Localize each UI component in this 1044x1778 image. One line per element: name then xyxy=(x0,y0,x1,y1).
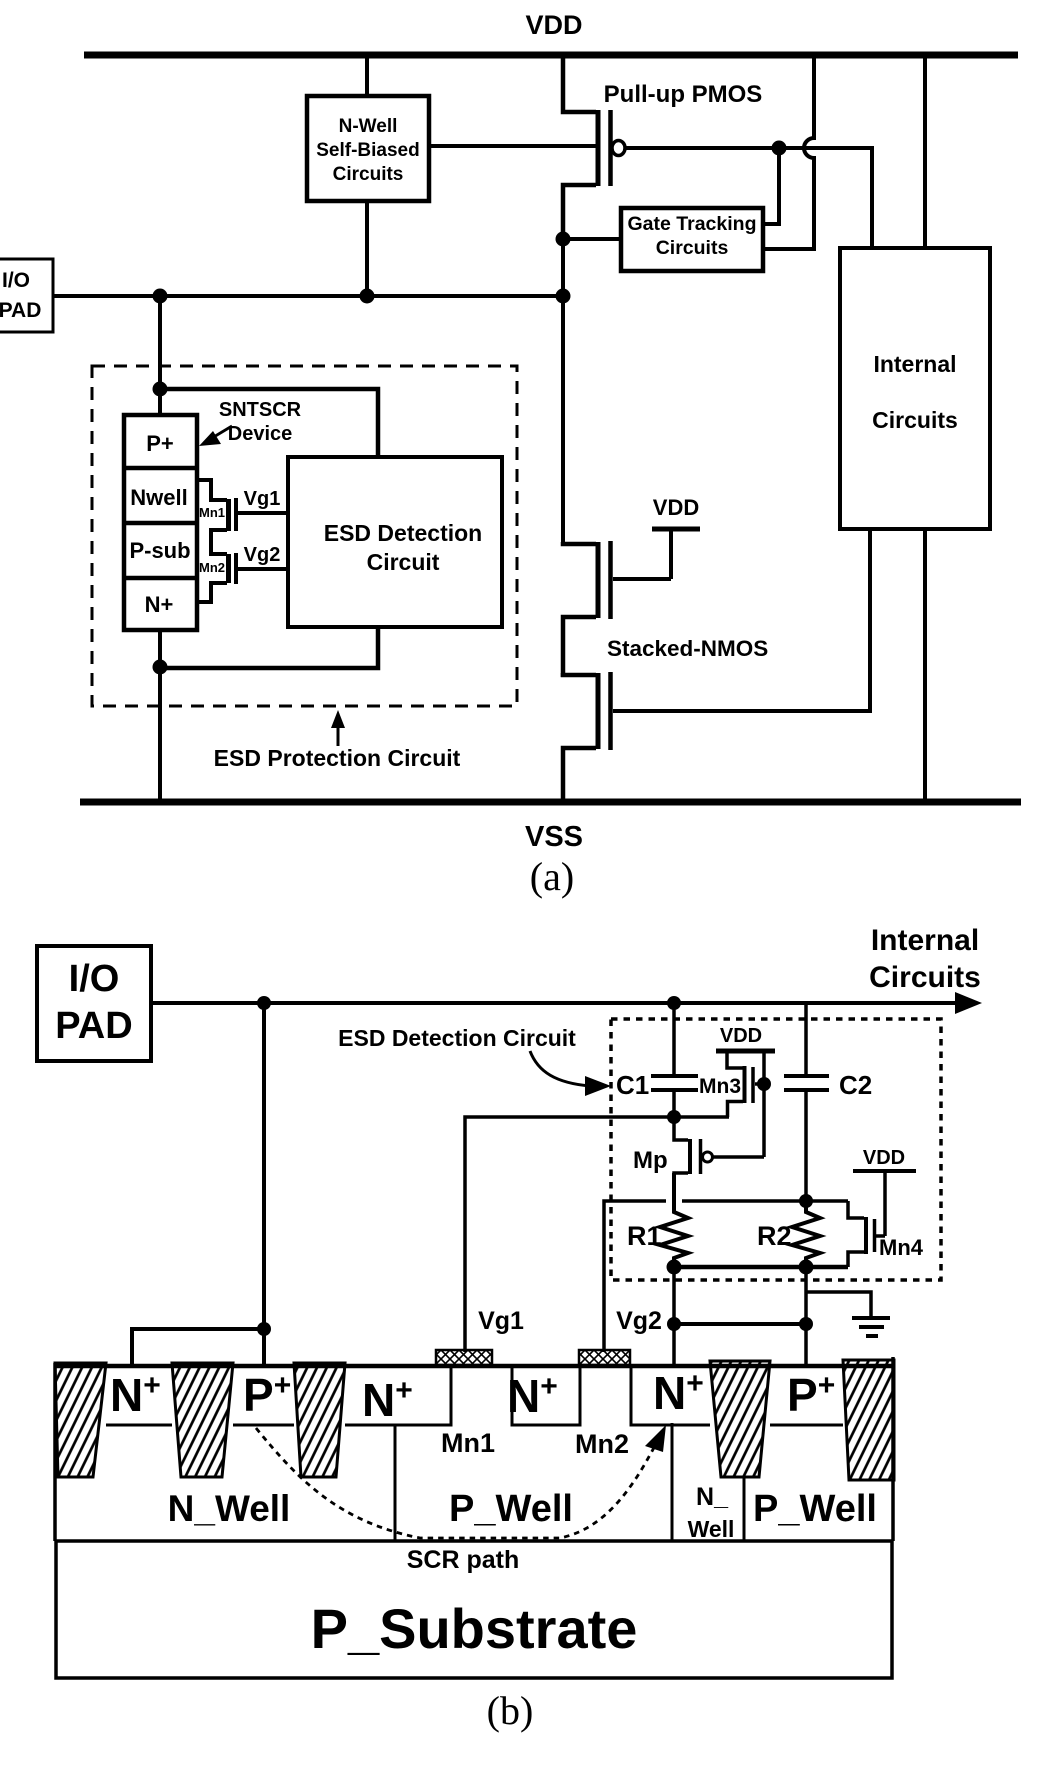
svg-text:VDD: VDD xyxy=(720,1025,762,1047)
SNTSCR device stack boxes P+/Nwell/P-sub/N+ xyxy=(124,415,197,630)
node Mn3 gate dot xyxy=(757,1077,771,1091)
wire Vg2 node horizontal (left of R1) xyxy=(604,1201,666,1352)
node pad line junction at x367 xyxy=(360,289,375,304)
field oxide trapezoid 1 xyxy=(55,1363,106,1477)
svg-text:P_Well: P_Well xyxy=(753,1488,877,1530)
node Vg2 net right dot xyxy=(799,1317,813,1331)
svg-text:Mn2: Mn2 xyxy=(575,1429,629,1459)
wire ESD detection bottom to SNTSCR cathode xyxy=(160,627,378,668)
diffusion N+ fourth outline xyxy=(631,1364,710,1425)
svg-text:VSS: VSS xyxy=(525,821,583,853)
wire pad to internal circuits xyxy=(151,1001,960,1005)
wire N-Well box to PMOS bulk xyxy=(429,144,598,148)
N-Well Self-Biased Circuits box xyxy=(307,96,429,201)
svg-text:C1: C1 xyxy=(616,1070,649,1100)
svg-text:ESD Detection: ESD Detection xyxy=(324,520,482,546)
node C2 bottom dot xyxy=(799,1194,813,1208)
Internal Circuits box (part a) xyxy=(840,248,990,529)
arrow to internal circuits xyxy=(955,992,982,1014)
wire VDD to gate-tracking with hop over gate net xyxy=(764,55,814,249)
net label VDD (top) xyxy=(525,10,582,40)
svg-text:N_: N_ xyxy=(696,1483,729,1511)
svg-text:PAD: PAD xyxy=(55,1005,132,1047)
label Internal Circuits (part b) xyxy=(869,924,981,994)
wire VDD down to Mp gate xyxy=(762,1051,766,1157)
svg-text:VDD: VDD xyxy=(653,495,699,520)
svg-text:Mn4: Mn4 xyxy=(879,1235,924,1260)
label SNTSCR Device xyxy=(219,399,302,445)
net label Vg2 (part a) xyxy=(244,544,281,566)
field oxide trapezoid 4 xyxy=(710,1361,770,1477)
wire Vg2 net horizontal (substrate) xyxy=(674,1322,806,1326)
label N+ diffusion 1 xyxy=(110,1369,161,1421)
svg-text:P_Well: P_Well xyxy=(449,1488,573,1530)
field oxide trapezoid 3 xyxy=(294,1363,345,1477)
arrow to ESD protection dashed box xyxy=(331,710,345,746)
ESD protection dashed box xyxy=(92,366,517,706)
diffusion bottom P+ first xyxy=(233,1424,294,1427)
Gate Tracking Circuits box xyxy=(621,208,763,271)
transistor Mn3 xyxy=(699,1051,765,1117)
svg-text:N_Well: N_Well xyxy=(168,1488,291,1529)
wire SNTSCR cathode to VSS xyxy=(158,630,162,802)
svg-text:P+: P+ xyxy=(146,431,174,456)
svg-text:VDD: VDD xyxy=(863,1147,905,1169)
wire N-Well box bottom to pad line xyxy=(365,201,369,296)
transistor stacked-NMOS upper xyxy=(563,541,611,677)
svg-text:Mn3: Mn3 xyxy=(699,1075,741,1098)
well boundary N_Well/P_Well rightmost xyxy=(743,1477,746,1541)
svg-text:Well: Well xyxy=(688,1516,735,1542)
wire C2 bottom lead xyxy=(804,1090,808,1201)
capacitor C2 xyxy=(784,1070,872,1100)
arrow ESD detection label to C1 xyxy=(530,1051,611,1096)
P_Substrate box xyxy=(56,1541,892,1678)
ground symbol xyxy=(852,1318,890,1336)
wire Vg1 horizontal and down to gate contact xyxy=(465,1117,729,1352)
ESD detection dashed box (part b) xyxy=(611,1019,941,1280)
wire lower NMOS gate lead xyxy=(613,529,870,711)
label N+ diffusion 3 xyxy=(507,1370,558,1422)
svg-text:Device: Device xyxy=(228,423,293,445)
node pad line junction at x563 xyxy=(556,289,571,304)
wire Vg1 gate lead xyxy=(238,511,288,515)
transistor pull-up PMOS xyxy=(563,53,625,242)
svg-text:ESD Detection Circuit: ESD Detection Circuit xyxy=(338,1025,576,1051)
resistor R1 xyxy=(627,1173,688,1267)
wire pull-up drain to stacked NMOS xyxy=(561,236,565,544)
net label Vg2 (part b) xyxy=(616,1307,662,1335)
node drain-gate-tracking dot xyxy=(556,232,571,247)
diffusion bottom P+ second xyxy=(770,1424,843,1427)
diffusion bottom N+ first xyxy=(106,1424,172,1427)
diffusion N+ third outline xyxy=(512,1364,580,1425)
svg-text:C2: C2 xyxy=(839,1070,872,1100)
VSS rail xyxy=(80,799,1021,806)
capacitor C1 xyxy=(616,1070,698,1100)
net label VSS xyxy=(525,821,583,853)
label P_Well right xyxy=(753,1488,877,1530)
node Vg2 net left dot xyxy=(667,1317,681,1331)
net label Vg1 (part a) xyxy=(244,488,281,510)
svg-text:Gate Tracking: Gate Tracking xyxy=(628,213,757,235)
transistor Mn4 xyxy=(848,1171,924,1267)
node pad line junction at x160 xyxy=(153,289,168,304)
wire N+ contact branch xyxy=(132,1329,264,1367)
wire gate junction down to gate-tracking upper xyxy=(764,148,779,224)
svg-text:ESD Protection Circuit: ESD Protection Circuit xyxy=(214,745,461,771)
node SNTSCR top dot xyxy=(153,382,168,397)
wire SNTSCR anode vertical xyxy=(158,296,162,415)
svg-text:Mn2: Mn2 xyxy=(199,560,225,575)
node C1 bottom dot xyxy=(667,1110,681,1124)
svg-text:Internal: Internal xyxy=(871,924,979,957)
svg-text:Vg2: Vg2 xyxy=(244,544,281,566)
svg-text:N+: N+ xyxy=(145,592,174,617)
arrow SNTSCR label to stack xyxy=(199,426,232,446)
wire I/O pad horizontal xyxy=(53,294,563,298)
node R1 bottom dot xyxy=(667,1260,682,1275)
label (a) xyxy=(530,854,574,899)
wire pad down to P+ contact xyxy=(262,1003,266,1367)
svg-text:Vg2: Vg2 xyxy=(616,1307,662,1335)
svg-text:N-Well: N-Well xyxy=(339,116,398,137)
SCR path arrowhead xyxy=(645,1425,666,1452)
wire Internal Circuits to VSS xyxy=(923,529,927,802)
label ESD Protection Circuit xyxy=(214,745,461,771)
svg-text:I/O: I/O xyxy=(2,269,30,292)
svg-text:SCR path: SCR path xyxy=(407,1546,520,1574)
substrate cross-section outer well region xyxy=(55,1357,893,1541)
wire VDD to Internal Circuits xyxy=(923,55,927,248)
gate contact Vg1 xyxy=(436,1350,492,1365)
wire C1 bottom lead xyxy=(672,1090,676,1117)
svg-text:Vg1: Vg1 xyxy=(478,1307,524,1335)
svg-text:Circuit: Circuit xyxy=(367,549,440,575)
svg-text:Mn1: Mn1 xyxy=(199,505,225,520)
svg-text:(a): (a) xyxy=(530,854,574,899)
wire Mp gate lead xyxy=(713,1155,764,1159)
transistor stacked-NMOS lower xyxy=(563,672,611,802)
label N+ diffusion 4 xyxy=(653,1367,704,1419)
svg-text:VDD: VDD xyxy=(525,10,582,40)
svg-text:(b): (b) xyxy=(487,1688,534,1733)
power VDD bar (Mn3) xyxy=(716,1025,775,1051)
well boundary N_Well/P_Well left xyxy=(394,1425,397,1541)
wire SNTSCR top to ESD detection top xyxy=(160,389,378,457)
label N+ diffusion 2 xyxy=(362,1374,413,1426)
svg-text:P_Substrate: P_Substrate xyxy=(311,1597,638,1660)
svg-text:Internal: Internal xyxy=(873,351,956,377)
svg-text:Circuits: Circuits xyxy=(869,961,981,994)
net label Vg1 (part b) xyxy=(478,1307,524,1335)
svg-text:Mp: Mp xyxy=(633,1147,668,1174)
node gate junction dot xyxy=(772,141,787,156)
label N_Well small xyxy=(688,1483,735,1542)
label N_Well left xyxy=(168,1488,291,1529)
wire R2 bottom to Vg2 contact node xyxy=(804,1267,808,1367)
svg-text:R2: R2 xyxy=(757,1221,792,1251)
VDD rail xyxy=(84,52,1018,59)
gate contact Vg2 xyxy=(579,1350,630,1365)
label ESD Detection Circuit (part b) xyxy=(338,1025,576,1051)
resistor R2 xyxy=(757,1201,820,1267)
label P_Well middle xyxy=(449,1488,573,1530)
node SNTSCR bottom dot xyxy=(153,660,168,675)
wire R1 bottom to Vg2 diffusion xyxy=(672,1267,676,1367)
transistor Mn2 (SNTSCR trigger) xyxy=(197,553,236,602)
svg-text:Nwell: Nwell xyxy=(130,485,187,510)
svg-text:Stacked-NMOS: Stacked-NMOS xyxy=(607,636,768,661)
SCR path dashed curve xyxy=(256,1428,658,1538)
field oxide trapezoid 5 xyxy=(843,1360,894,1480)
wire pad-node to gate-tracking left xyxy=(563,237,621,241)
wire ground branch xyxy=(806,1292,871,1317)
ESD Detection Circuit box (part a) xyxy=(288,457,502,627)
node C1 top dot xyxy=(667,996,681,1010)
svg-text:PAD: PAD xyxy=(0,299,41,322)
svg-text:Circuits: Circuits xyxy=(872,407,958,433)
node N+ contact branch dot xyxy=(257,1322,271,1336)
svg-text:R1: R1 xyxy=(627,1221,662,1251)
svg-text:Vg1: Vg1 xyxy=(244,488,281,510)
svg-text:P-sub: P-sub xyxy=(129,538,190,563)
svg-text:I/O: I/O xyxy=(69,958,120,1000)
label SCR path xyxy=(407,1546,520,1574)
label Mn1 (cross-section) xyxy=(441,1428,495,1458)
I/O PAD box (part b) xyxy=(37,946,151,1061)
node R2 bottom dot xyxy=(799,1260,814,1275)
wire C2 top lead xyxy=(804,1003,808,1076)
svg-text:Circuits: Circuits xyxy=(656,237,729,259)
power VDD bar (Mn4) xyxy=(853,1147,916,1171)
svg-text:SNTSCR: SNTSCR xyxy=(219,399,302,421)
label P+ diffusion 2 xyxy=(787,1369,835,1421)
I/O PAD box (part a) xyxy=(0,259,53,332)
wire upper NMOS gate lead xyxy=(613,577,671,581)
label Stacked-NMOS xyxy=(607,636,768,661)
substrate surface line xyxy=(54,1364,894,1369)
svg-text:Pull-up PMOS: Pull-up PMOS xyxy=(604,81,763,108)
wire R1 R2 bottom rail xyxy=(674,1265,848,1270)
wire Vg2 gate lead xyxy=(238,567,288,571)
well boundary P_Well/N_Well right xyxy=(671,1423,674,1541)
wire Vg2 node horizontal (right of R1) xyxy=(682,1199,848,1203)
wire C1 top lead xyxy=(672,1003,676,1076)
wire N-Well box top xyxy=(365,55,369,97)
svg-text:Mn1: Mn1 xyxy=(441,1428,495,1458)
label Pull-up PMOS xyxy=(604,81,763,108)
transistor Mn1 (SNTSCR trigger) xyxy=(197,480,236,554)
svg-text:Self-Biased: Self-Biased xyxy=(316,140,419,161)
power VDD stub (stacked NMOS gate) xyxy=(652,495,700,579)
transistor Mp xyxy=(633,1117,713,1212)
label P+ diffusion 1 xyxy=(243,1369,291,1421)
field oxide trapezoid 2 xyxy=(172,1363,233,1477)
wire PMOS gate net horizontal xyxy=(625,148,872,248)
label Mn2 (cross-section) xyxy=(575,1429,629,1459)
node pad line dot (to substrate) xyxy=(257,996,271,1010)
diffusion N+ second outline xyxy=(345,1364,451,1425)
label (b) xyxy=(487,1688,534,1733)
svg-text:Circuits: Circuits xyxy=(333,164,404,185)
